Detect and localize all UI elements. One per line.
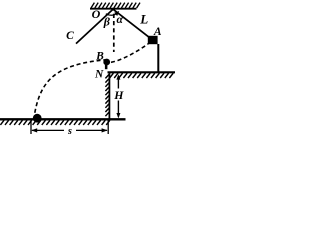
svg-text:C: C (66, 30, 74, 42)
ball B at corner (103, 59, 110, 66)
trajectory N to ground ball (dashed) (35, 60, 106, 113)
svg-text:A: A (153, 26, 162, 38)
svg-text:O: O (92, 7, 101, 21)
s dimension left tick (30, 121, 32, 135)
ball on ground (33, 114, 42, 123)
H dimension upper arrow (117, 76, 119, 89)
svg-text:N: N (94, 68, 104, 80)
table surface line (108, 71, 176, 73)
svg-text:α: α (117, 14, 124, 26)
ground line (0, 118, 126, 120)
pole (157, 44, 159, 73)
arc arrowhead (114, 11, 119, 16)
svg-text:s: s (67, 126, 72, 137)
svg-text:B: B (95, 50, 104, 62)
angle arc with arrow (106, 13, 117, 15)
s dimension line right segment with arrow (76, 129, 107, 131)
step face hatching (105, 75, 109, 117)
H dimension lower arrow (117, 101, 119, 117)
string to C (76, 9, 113, 43)
ceiling hatching (91, 3, 140, 8)
ceiling line (90, 8, 137, 10)
string L to block A (113, 9, 150, 38)
step vertical face (108, 72, 110, 120)
trajectory B to A (dashed) (111, 44, 148, 63)
svg-text:H: H (113, 88, 124, 102)
ball B stem (105, 65, 108, 69)
svg-text:β: β (103, 14, 111, 28)
vertical dashed line below pivot (113, 14, 115, 52)
s dimension right tick (107, 121, 109, 135)
ground hatching (0, 120, 109, 125)
s dimension line left segment with arrow (32, 129, 64, 131)
svg-text:L: L (139, 12, 148, 27)
table hatching (110, 73, 174, 78)
block A on pole (148, 36, 158, 44)
